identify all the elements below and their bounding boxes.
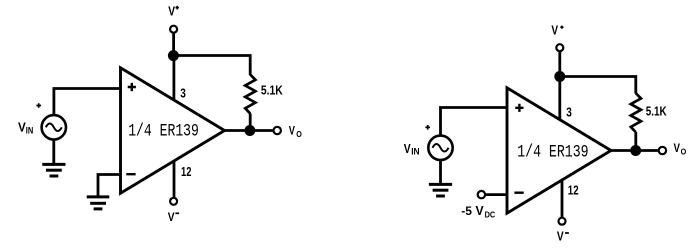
svg-text:V: V <box>551 23 558 38</box>
terminal V+ (right) <box>556 44 563 51</box>
terminal -5 VDC (right) <box>478 191 485 198</box>
source VIN (left) <box>42 115 66 139</box>
svg-text:5.1K: 5.1K <box>261 83 284 98</box>
wire + input (right) <box>441 108 508 135</box>
output node (right) <box>630 145 641 156</box>
terminal V- (right) <box>559 218 566 225</box>
terminal VO (right) <box>659 147 666 154</box>
svg-text:V: V <box>557 229 564 244</box>
svg-text:V: V <box>18 119 26 134</box>
ground (below VIN, right) <box>429 184 452 196</box>
wire pin 3 (left) <box>172 56 175 101</box>
op-amp U1 (1/4 ER139, left) <box>121 68 225 193</box>
output node (left) <box>244 125 255 136</box>
wire resistor to output node (right) <box>634 132 637 151</box>
wire source to ground (right) <box>439 160 442 184</box>
wire top rail to resistor (right) <box>560 77 636 94</box>
svg-text:3: 3 <box>566 105 572 120</box>
terminal V+ (left) <box>170 26 177 33</box>
svg-text:IN: IN <box>411 146 419 156</box>
wire V+ terminal to junction (right) <box>558 52 561 77</box>
label V+ (left) <box>168 4 179 19</box>
svg-text:-5: -5 <box>461 204 472 218</box>
label VIN (right) <box>404 141 420 157</box>
label VO (right) <box>674 141 687 157</box>
junction node (V+ rail, right) <box>554 71 565 82</box>
label -5 VDC (right) <box>461 203 495 220</box>
wire output (left) <box>222 129 273 132</box>
label V- (left) <box>168 210 179 224</box>
polarity + (right source) <box>425 125 430 130</box>
wire resistor to output node (left) <box>249 113 252 130</box>
svg-text:O: O <box>296 129 302 139</box>
svg-text:IN: IN <box>26 125 34 135</box>
terminal VO (left) <box>274 127 281 134</box>
svg-text:O: O <box>681 147 687 157</box>
label V+ (right) <box>551 23 563 38</box>
resistor R1 5.1K (left) <box>245 75 255 114</box>
ground (inverting input, left) <box>87 197 110 209</box>
svg-text:3: 3 <box>180 85 186 100</box>
ground (below VIN, left) <box>42 164 65 176</box>
wire + input (left) <box>54 89 121 115</box>
polarity + (left source) <box>36 103 41 108</box>
svg-text:V: V <box>476 203 484 218</box>
svg-text:1/4 ER139: 1/4 ER139 <box>128 121 199 141</box>
svg-text:1/4 ER139: 1/4 ER139 <box>517 142 588 162</box>
svg-text:V: V <box>404 141 411 156</box>
wire source to ground (left) <box>52 140 55 165</box>
wire pin 3 (right) <box>558 77 561 121</box>
svg-text:V: V <box>289 123 295 137</box>
terminal V- (left) <box>170 198 177 205</box>
label V- (right) <box>557 229 569 244</box>
svg-text:V: V <box>168 210 175 224</box>
svg-text:12: 12 <box>181 164 191 179</box>
label VIN (left) <box>18 119 33 135</box>
op-amp U2 (1/4 ER139, right) <box>507 88 611 213</box>
wire output (right) <box>608 149 658 152</box>
wire -5 VDC to - input (right) <box>485 193 507 196</box>
wire V+ terminal to junction <box>172 33 175 56</box>
wire top rail to resistor (left) <box>173 56 250 76</box>
svg-text:5.1K: 5.1K <box>646 103 667 118</box>
wire pin 12 (right) <box>561 181 564 218</box>
wire - input (left) <box>98 175 121 197</box>
source VIN (right) <box>428 136 452 160</box>
junction node (V+ rail, left) <box>168 50 179 61</box>
resistor R2 5.1K (right) <box>631 93 641 132</box>
svg-text:V: V <box>674 141 681 155</box>
wire pin 12 (left) <box>173 161 176 198</box>
svg-text:DC: DC <box>485 209 496 219</box>
svg-text:V: V <box>168 4 175 19</box>
label VO (left) <box>289 123 302 139</box>
svg-text:12: 12 <box>568 183 579 198</box>
